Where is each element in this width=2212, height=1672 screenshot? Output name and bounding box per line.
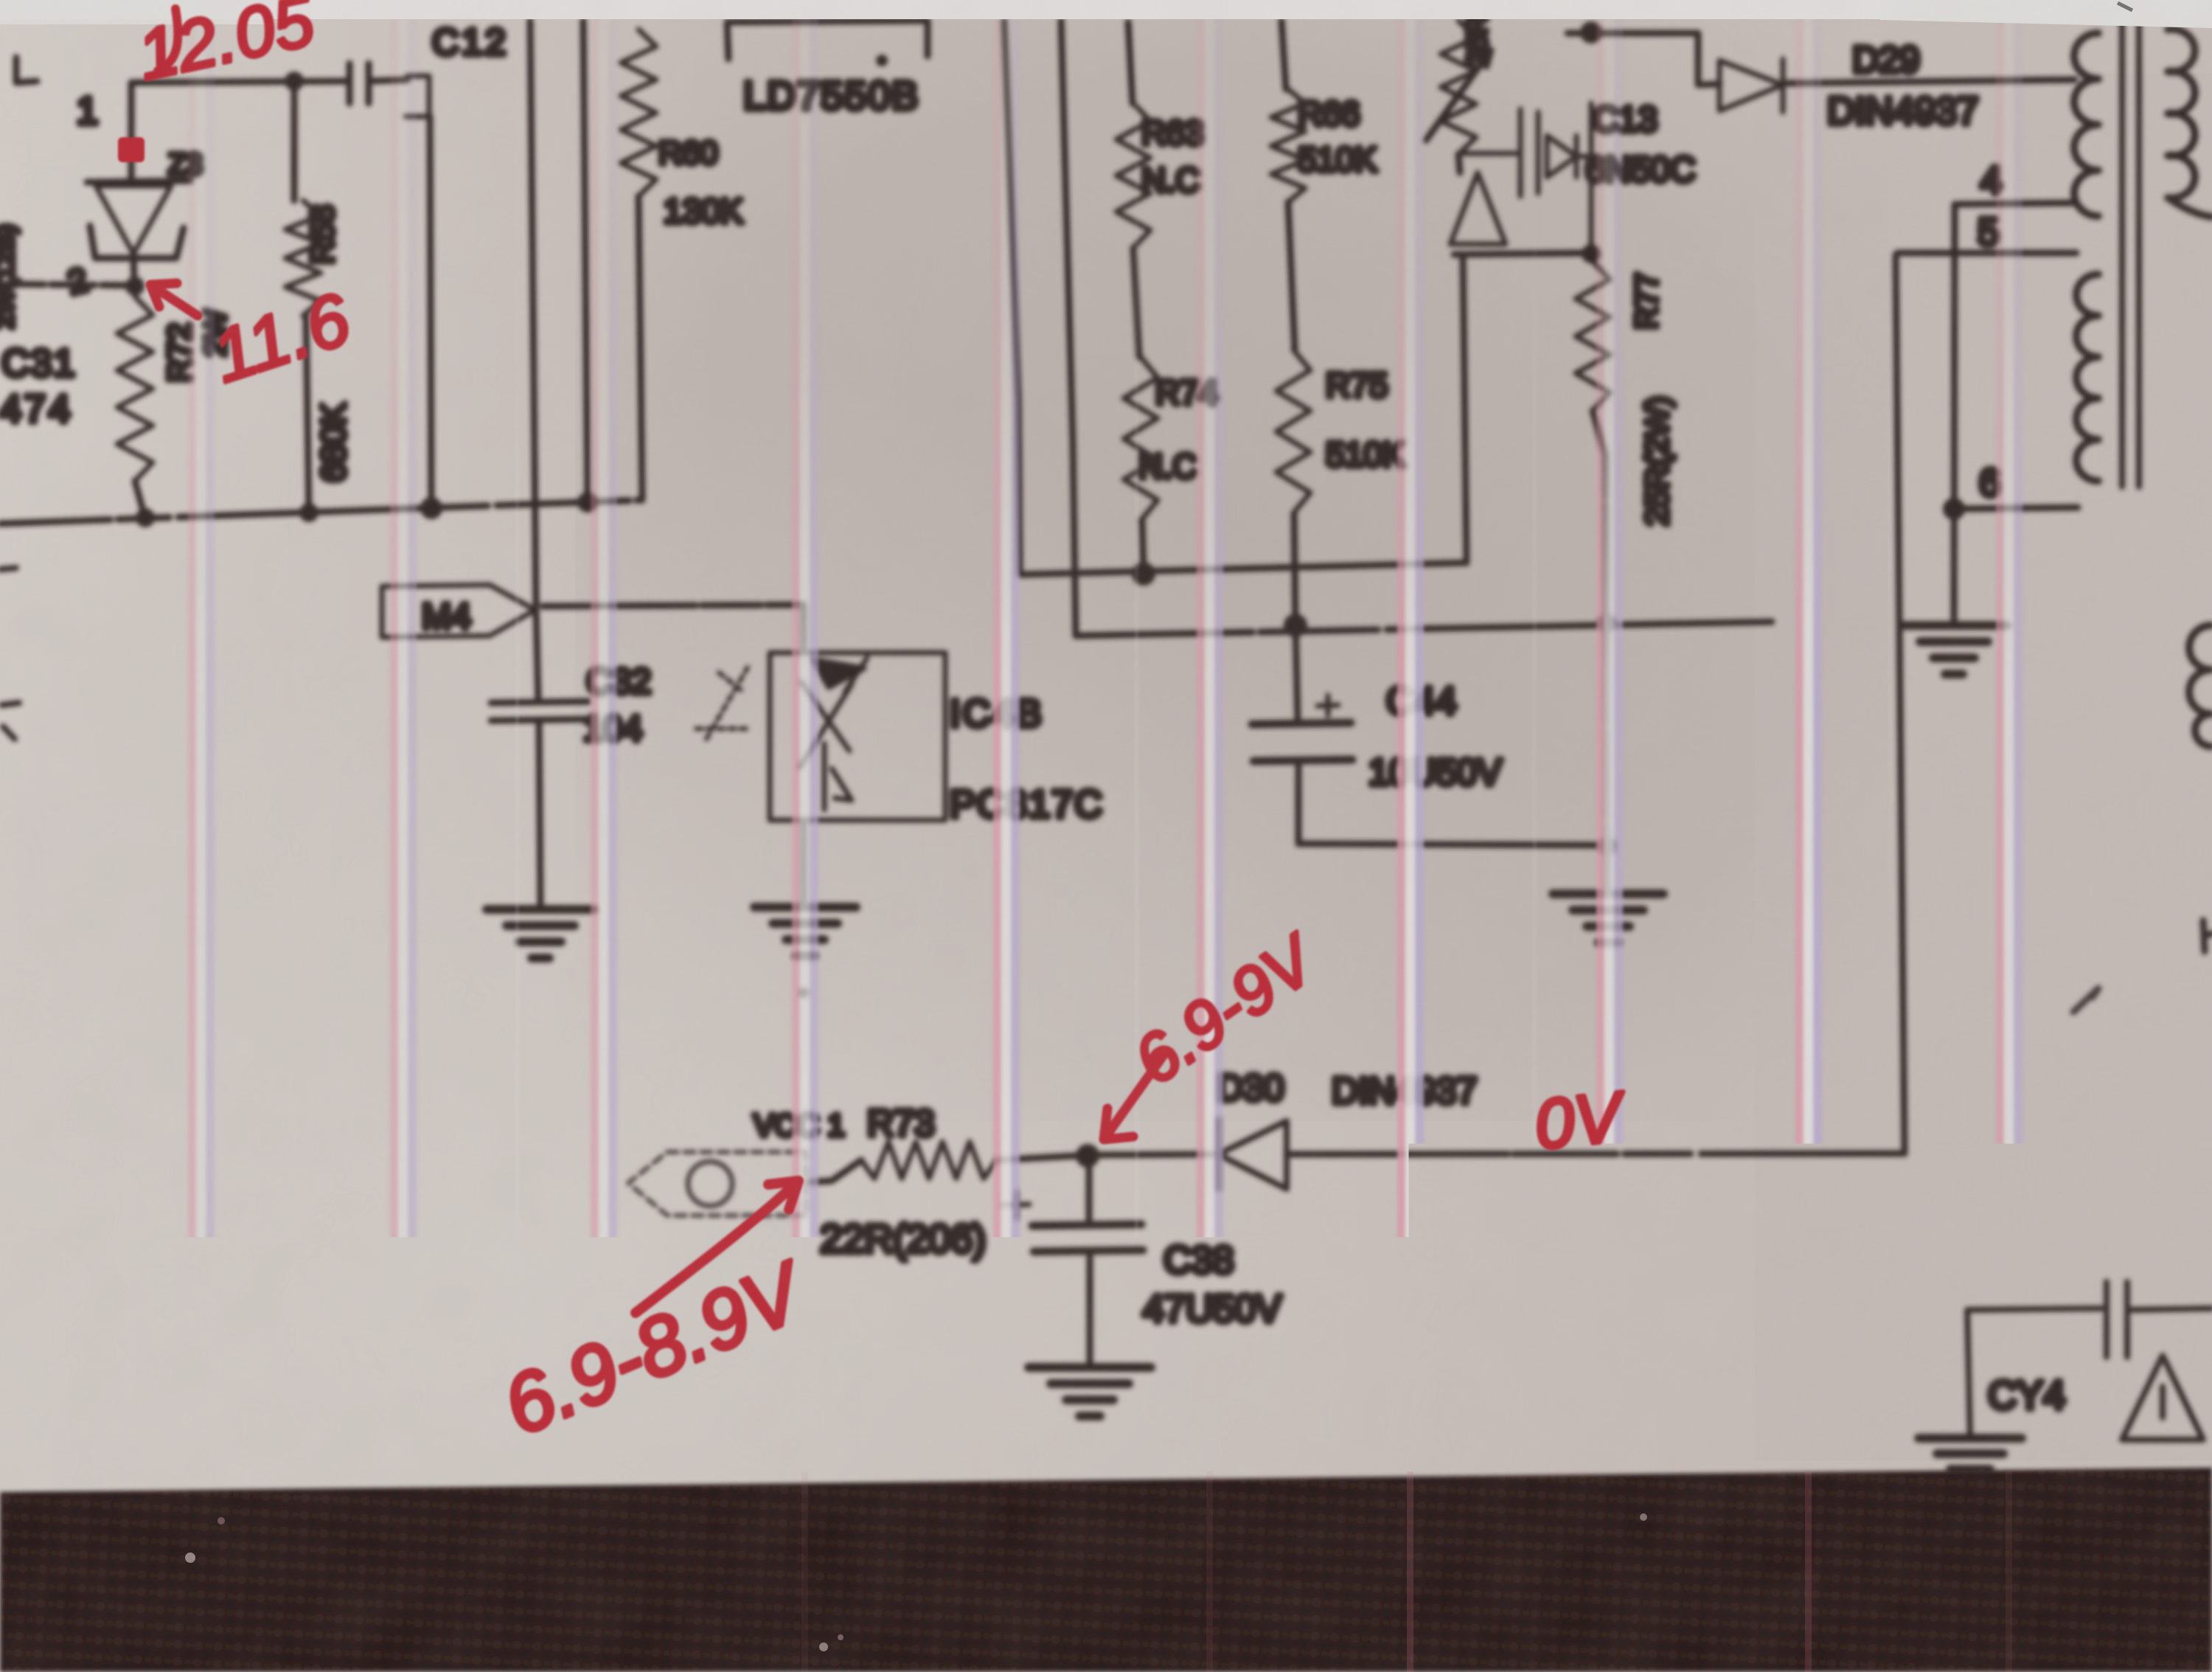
warning triangle 1	[1450, 173, 1506, 244]
resistor R66	[1271, 89, 1305, 202]
wire pin4 vertical down	[1954, 204, 1955, 622]
transformer primary winding lower	[2076, 274, 2098, 481]
plus sign C38	[1003, 1192, 1029, 1218]
wire gate resistor to triangle	[1458, 154, 1460, 173]
warning triangle CY4	[2122, 1356, 2203, 1440]
red arrow to C38 node	[1104, 1056, 1163, 1139]
junction dot bus-C12col	[420, 497, 442, 519]
white scan edge top	[276, 4, 282, 10]
diode D29	[1719, 59, 1783, 112]
red long arrow to R73	[636, 1181, 799, 1313]
wire pin6 to winding	[1954, 507, 2078, 509]
ground C32	[487, 909, 594, 958]
wire source feedback to railA	[1463, 254, 1467, 563]
wire C44 bottom to right	[1298, 844, 1606, 845]
junction dot pin6	[1943, 498, 1965, 520]
wire bus horizontal left	[0, 500, 642, 524]
capacitor C12	[349, 63, 429, 117]
connector VCC dashed	[628, 1152, 806, 1215]
transformer lower secondary fragment	[2189, 625, 2211, 746]
wire under triangle	[1454, 253, 1585, 254]
wire R72 to bus	[135, 481, 145, 516]
transformer primary winding upper	[2074, 33, 2098, 216]
dot under opto ground	[799, 988, 809, 998]
junction dot drain top	[1580, 21, 1602, 44]
wire v3 top	[583, 21, 588, 502]
transformer secondary winding	[2168, 30, 2212, 217]
wire R74 to railA dot	[1142, 521, 1144, 572]
resistor R75	[1276, 350, 1310, 513]
junction dot bus-v3	[577, 492, 598, 513]
print smudge arrow mark	[696, 667, 751, 739]
junction dot railA	[1132, 562, 1155, 586]
wire R73 to D30	[997, 1156, 1077, 1160]
junction dot C38	[1076, 1144, 1099, 1168]
resistor R60	[621, 30, 656, 196]
resistor R63	[1116, 103, 1150, 248]
wire R77 down to railB and ground	[1593, 411, 1607, 892]
wire R66-R75	[1288, 202, 1295, 350]
wire fragment top-left edge	[16, 58, 37, 83]
ground CY4	[1919, 1438, 2022, 1469]
red handwritten annotations	[118, 0, 1630, 1453]
node junction dot top-left	[285, 72, 304, 91]
wire R58 to bus	[306, 316, 309, 515]
capacitor CY4	[1967, 1282, 2212, 1437]
left edge small marks	[0, 568, 19, 739]
optocoupler IC4B box	[770, 653, 945, 820]
wire pin5	[1897, 250, 2076, 257]
connector VCC circle glyph	[688, 1162, 732, 1206]
right edge mark	[2203, 920, 2212, 951]
resistor R77	[1576, 261, 1610, 411]
wire 0V vertical long	[1896, 255, 1905, 1154]
capacitor C38	[1032, 1156, 1143, 1366]
optocoupler LED and transistor	[800, 658, 867, 810]
wire opto to ground	[801, 820, 807, 906]
red dot mark	[118, 137, 145, 162]
wire C12 column down	[430, 117, 431, 507]
wire node to left edge	[0, 284, 131, 285]
IC bracket LD7550B	[727, 21, 928, 59]
wire v2 top	[530, 21, 536, 605]
wire D29 to transformer	[1783, 80, 2075, 83]
transformer core lines	[2119, 21, 2125, 487]
resistor R74	[1124, 357, 1158, 521]
pen mark small	[2073, 988, 2098, 1012]
wire rail A	[1020, 563, 1467, 575]
ground opto	[754, 907, 856, 956]
capacitor C32	[491, 610, 588, 908]
wire top-left horizontal to C12	[131, 81, 347, 178]
small dot under bracket	[876, 55, 888, 66]
wire 0V horizontal	[1287, 1154, 1905, 1154]
connector M4	[382, 585, 535, 637]
junction dot railB C44	[1284, 614, 1307, 637]
junction dot bus-R58	[299, 503, 319, 522]
zener diode Z3	[87, 181, 190, 258]
resistor R58	[291, 81, 298, 201]
junction dot bus-R72	[136, 508, 155, 527]
wire top rail to D29	[1568, 33, 1719, 85]
resistor R73	[807, 1160, 861, 1182]
junction dot C44-ground line	[1598, 836, 1617, 856]
red arrow to node	[150, 283, 198, 316]
plus sign C44	[1318, 695, 1338, 715]
junction dot source	[1582, 244, 1601, 263]
wire pin4	[1955, 203, 2076, 204]
resistor R66 lead	[1281, 21, 1286, 89]
MOSFET C13	[1461, 103, 1591, 246]
ground right	[1553, 894, 1663, 943]
resistor R72	[117, 296, 153, 481]
resistor with arrow (gate)	[1441, 21, 1476, 154]
resistor R63 lead	[1128, 22, 1133, 103]
dark fabric band bottom	[0, 1468, 2212, 1672]
ground C38	[1029, 1367, 1151, 1416]
wire R75 to railB dot	[1294, 513, 1295, 624]
wire rail B	[1076, 622, 1772, 636]
diode D30	[1218, 1120, 1287, 1189]
junction dot railB-R77	[1597, 614, 1616, 633]
wire M4 to opto	[543, 605, 804, 653]
wire L1 vertical	[1004, 21, 1020, 575]
wire node to D30	[1099, 1154, 1213, 1155]
wire zener to node	[133, 254, 134, 285]
wire R60 to bus corner	[639, 196, 642, 499]
wire R63-R74	[1133, 248, 1139, 357]
ground pin6	[1901, 625, 2007, 674]
wire L2 vertical	[1061, 21, 1076, 636]
node M junction dot	[125, 277, 145, 296]
capacitor C44	[1252, 625, 1352, 844]
